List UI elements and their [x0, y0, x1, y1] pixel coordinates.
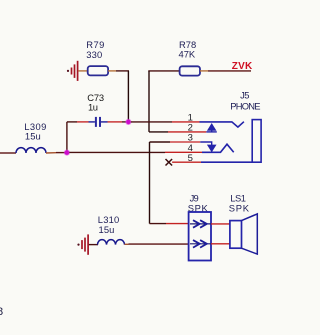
J9 pin 1 arrow: [190, 220, 211, 228]
inductor L309: [16, 148, 46, 153]
jack switch arrow pin3: [200, 142, 211, 146]
ground GND2 (left of L310): [77, 234, 88, 254]
wire L310 to J9 pin2: [125, 243, 129, 245]
svg-text:47K: 47K: [179, 49, 196, 60]
wire GND2 to L310: [89, 244, 98, 246]
svg-text:8: 8: [0, 306, 3, 318]
svg-text:330: 330: [86, 49, 102, 60]
wire L309 to node B: [46, 152, 56, 154]
connector J5 phone jack symbol: [200, 120, 262, 163]
svg-text:SPK: SPK: [229, 203, 250, 214]
wire node A to jack pin1: [131, 121, 172, 123]
speaker LS1 body: [230, 221, 242, 249]
svg-text:15u: 15u: [25, 131, 41, 142]
wire corner C73 left: [67, 121, 77, 123]
jack switch arrow pin2: [206, 131, 217, 133]
svg-text:1u: 1u: [88, 102, 98, 113]
jack sleeve barrel: [252, 120, 261, 163]
node B junction dot: [64, 150, 70, 156]
capacitor C73: [89, 117, 108, 127]
wire C73 right to node A: [108, 121, 123, 123]
wire R78 right to ZVK: [200, 70, 208, 72]
jack tip contact (pin1): [200, 122, 244, 127]
J9 pin 2 arrow: [190, 240, 211, 248]
ground GND1 (left of R79): [67, 61, 78, 81]
wire node B to jack pin4: [69, 151, 165, 153]
speaker LS1 horn: [242, 214, 258, 254]
no-connect X on pin5: [166, 159, 173, 166]
inductor L310: [98, 240, 125, 245]
wire R79 right: [108, 70, 116, 72]
resistor R78: [180, 66, 200, 75]
wire R78 left branch down to pin2 net: [148, 71, 150, 132]
wire J9 to LS1 top: [211, 223, 230, 225]
connector J9 body: [189, 212, 211, 261]
wire J9 to LS1 bottom: [211, 243, 230, 245]
wire J9 feed horizontal: [150, 223, 167, 225]
svg-text:ZVK: ZVK: [232, 61, 253, 72]
wire R78 left horizontal: [148, 70, 179, 72]
resistor R79: [88, 66, 108, 75]
wire down from C73 corner to node B: [66, 122, 68, 153]
jack ring contact (pin4): [202, 144, 234, 152]
wire pin5: [172, 161, 201, 163]
svg-text:15u: 15u: [99, 224, 115, 235]
wire pin3 branch down to J9: [149, 142, 151, 224]
node A junction dot: [125, 119, 131, 125]
svg-text:J5: J5: [240, 90, 249, 101]
wire pin3 corner from J9 feed: [150, 141, 171, 143]
wire pin2 from R78 branch: [149, 131, 168, 133]
wire R79 corner down to node A: [127, 71, 129, 122]
wire left edge to L309: [0, 152, 16, 154]
wire GND1 to R79: [78, 70, 87, 72]
svg-text:PHONE: PHONE: [230, 101, 260, 112]
jack sleeve line (pin5): [201, 161, 252, 163]
